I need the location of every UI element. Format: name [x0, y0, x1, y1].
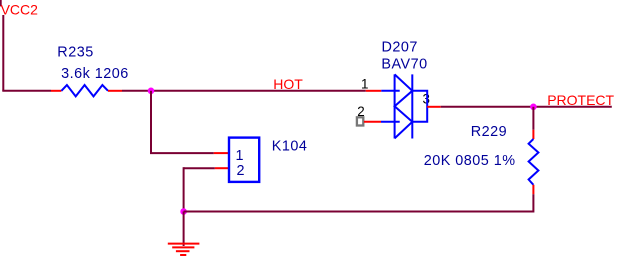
- D207 pin1 pin line: [381, 90, 399, 92]
- K104 pin 1 lead: [214, 152, 229, 154]
- svg-text:PROTECT: PROTECT: [547, 92, 614, 108]
- resistor R235 zigzag: [61, 85, 108, 96]
- svg-text:VCC2: VCC2: [1, 2, 39, 18]
- D207 pin3 lead red: [427, 106, 441, 108]
- wire VCC2 vertical: [2, 15, 4, 91]
- dual diode D207 symbol: [395, 74, 428, 138]
- power rail stub top-left edge: [0, 0, 2, 6]
- wire VCC2 to R235: [2, 90, 51, 92]
- wire K104 pin2 to ground corner: [184, 167, 215, 169]
- wire R229 to bottom rail: [532, 194, 534, 212]
- resistor R235 lead left: [51, 90, 61, 92]
- junction ground node: [180, 208, 187, 215]
- wire down to ground node: [183, 167, 185, 211]
- svg-text:3.6k 1206: 3.6k 1206: [61, 66, 129, 82]
- ground symbol: [168, 244, 200, 255]
- wire node B down to R229: [532, 107, 534, 130]
- no-connect pad marker pin2: [357, 117, 363, 125]
- D207 pin2 pin line: [381, 121, 400, 123]
- svg-text:R235: R235: [57, 45, 93, 61]
- wire D207 pin3 to node B: [441, 106, 534, 108]
- resistor R229 lead bottom: [532, 185, 534, 194]
- svg-text:BAV70: BAV70: [381, 56, 427, 72]
- resistor R229 lead top: [532, 130, 534, 139]
- junction node A: [148, 88, 155, 95]
- wire node B to PROTECT: [533, 106, 611, 108]
- D207 pin 3 number: [422, 93, 430, 103]
- resistor R229 zigzag: [529, 139, 539, 185]
- svg-text:20K 0805 1%: 20K 0805 1%: [424, 153, 516, 169]
- wire to K104 pin1: [150, 152, 214, 154]
- svg-text:R229: R229: [471, 124, 507, 140]
- svg-text:HOT: HOT: [273, 76, 303, 92]
- junction node B: [530, 104, 537, 111]
- svg-text:2: 2: [237, 163, 246, 179]
- component K104 box: [229, 138, 259, 182]
- wire node A down to K104 pin1 row: [150, 91, 152, 153]
- svg-text:1: 1: [236, 148, 245, 164]
- resistor R235 lead right: [108, 90, 122, 92]
- wire R235 to node A: [122, 90, 151, 92]
- wire ground node to R229 bottom: [184, 211, 534, 213]
- K104 pin 2 lead: [215, 167, 229, 169]
- svg-text:1: 1: [361, 76, 368, 91]
- D207 pin1 lead red: [366, 90, 382, 92]
- svg-text:K104: K104: [272, 138, 308, 154]
- svg-text:D207: D207: [382, 40, 418, 56]
- D207 pin2 lead red: [364, 121, 381, 123]
- wire node A to D207 pin1 (HOT net): [151, 90, 366, 92]
- ground stem: [183, 212, 185, 247]
